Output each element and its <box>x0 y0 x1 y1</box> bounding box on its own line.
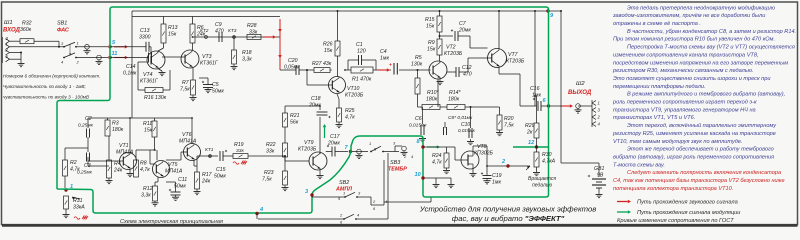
svg-text:R19: R19 <box>234 142 244 148</box>
svg-text:VT1: VT1 <box>119 143 129 149</box>
svg-text:R2: R2 <box>70 160 77 166</box>
capacitor C13 <box>139 28 151 52</box>
svg-text:ВЫХОД: ВЫХОД <box>568 90 592 96</box>
svg-text:КТ3: КТ3 <box>228 28 237 34</box>
wire VT7 collector to rail <box>498 10 500 49</box>
svg-text:130к: 130к <box>411 62 423 68</box>
red audio arrow after R28 <box>263 35 276 39</box>
svg-text:Т-моста схемы вау.: Т-моста схемы вау. <box>613 162 665 168</box>
svg-text:1: 1 <box>369 141 371 146</box>
capacitor C5 <box>199 78 224 95</box>
svg-text:C7: C7 <box>459 21 467 27</box>
svg-text:15к: 15к <box>426 24 435 30</box>
svg-text:R32: R32 <box>22 21 32 27</box>
resistor R11 <box>143 118 157 137</box>
node 6 <box>543 98 551 108</box>
svg-text:изменением сопротивления канал: изменением сопротивления канала транзист… <box>613 52 759 58</box>
svg-text:180к: 180к <box>426 97 438 103</box>
wire VT6 emitter to R17 <box>193 161 195 167</box>
svg-text:C13: C13 <box>140 28 150 34</box>
capacitor C3 <box>77 137 93 176</box>
wire VT7 emitter to C16 branch <box>499 68 520 107</box>
svg-text:В режиме амплитудного и тембро: В режиме амплитудного и тембрового вибра… <box>627 92 785 98</box>
svg-text:Номером 6 обозначен (корпусной: Номером 6 обозначен (корпусной) контакт. <box>3 73 100 79</box>
svg-text:R16 130к: R16 130к <box>144 95 167 101</box>
wire C7 to VT7 base <box>470 36 488 48</box>
wire top supply rail <box>132 10 561 12</box>
svg-text:24к: 24к <box>113 168 123 174</box>
capacitor C8* <box>444 115 473 135</box>
svg-text:Кривые изменения сопротивления: Кривые изменения сопротивления по ГОСТ <box>617 218 734 224</box>
ground R18 <box>231 64 238 70</box>
svg-text:R17: R17 <box>202 172 213 178</box>
transistor VT4 <box>140 51 165 85</box>
jack contact SB3 left <box>356 149 363 158</box>
ground C6 <box>419 136 426 142</box>
wire battery drop <box>560 10 562 163</box>
svg-text:1: 1 <box>77 41 79 46</box>
junction R5 <box>417 69 419 71</box>
resistor R29 <box>525 95 539 138</box>
transistor VT3 <box>181 50 219 68</box>
resistor R25 <box>337 94 356 122</box>
resistor R15 <box>425 10 442 32</box>
node 2 <box>501 159 510 168</box>
jack contact SB3 right <box>401 146 408 155</box>
transistor VT10 <box>329 77 364 99</box>
jack contact SB1 lower <box>96 55 103 64</box>
red audio arrow to output <box>562 104 574 108</box>
svg-text:ТЕМБР: ТЕМБР <box>388 167 407 173</box>
svg-text:C18: C18 <box>311 96 321 102</box>
svg-text:C12: C12 <box>462 65 472 71</box>
note text sensitivity <box>3 73 100 100</box>
svg-text:C5: C5 <box>212 82 219 88</box>
svg-text:R24: R24 <box>432 153 442 159</box>
resistor R2 <box>63 148 89 188</box>
node 8 <box>417 139 425 149</box>
svg-text:чувствительность по входу 3 -: чувствительность по входу 3 - 100мВ <box>3 95 89 100</box>
svg-text:Эта педаль претерпела неоднокр: Эта педаль претерпела неоднократную моди… <box>627 5 776 11</box>
ground R31 <box>63 213 70 218</box>
svg-text:R28: R28 <box>247 23 257 29</box>
svg-text:1мк: 1мк <box>492 180 501 186</box>
ground R12 <box>152 201 159 206</box>
transistor VT7 <box>488 49 525 68</box>
svg-text:10: 10 <box>415 172 422 178</box>
wire R6 to VT3 collector <box>192 43 194 50</box>
wire VT6 base <box>166 152 187 160</box>
svg-text:R26: R26 <box>323 42 333 48</box>
svg-text:R27 43к: R27 43к <box>312 61 332 67</box>
switch SB1 contacts <box>61 41 80 65</box>
ground VT9 emitter <box>317 170 324 179</box>
ground battery <box>596 188 603 198</box>
resistor R7 <box>180 68 196 95</box>
svg-text:VT10: VT10 <box>347 86 360 92</box>
svg-text:470: 470 <box>463 72 472 78</box>
ground R25 <box>336 122 343 128</box>
variable resistor R30 <box>526 152 556 171</box>
node 4 <box>255 207 264 215</box>
switch SB2 contacts row2 <box>258 213 388 225</box>
svg-text:R3: R3 <box>112 121 119 127</box>
svg-text:SB1: SB1 <box>57 21 67 27</box>
svg-text:180к: 180к <box>448 97 460 103</box>
svg-text:3,3к: 3,3к <box>141 193 151 199</box>
resistor R10* <box>422 90 440 110</box>
svg-text:вибрато (автовау), играя роль: вибрато (автовау), играя роль переменног… <box>613 154 774 160</box>
title device line2 <box>452 214 565 223</box>
wire C16 to output <box>541 105 566 107</box>
wire R27 to VT10 base <box>306 69 332 85</box>
svg-text:1мк: 1мк <box>380 56 389 62</box>
svg-text:7,5к: 7,5к <box>262 177 272 183</box>
control point KT2 <box>200 28 209 38</box>
wire SB1 to node 5 <box>76 46 108 48</box>
jack contact output <box>575 104 593 113</box>
svg-text:Вращается: Вращается <box>528 176 556 182</box>
svg-text:24к: 24к <box>201 179 211 185</box>
svg-text:ФАС: ФАС <box>57 28 70 34</box>
svg-text:0,05мк: 0,05мк <box>284 64 300 70</box>
wire VT4 to VT3 base <box>162 56 185 58</box>
wire C4 to VT2 base <box>399 69 431 71</box>
wire R5 to divider rail <box>417 94 419 107</box>
resistor R23 <box>262 170 288 185</box>
wire R16 loop <box>138 62 170 90</box>
wire VT6 output row <box>197 156 210 166</box>
resistor R27 <box>312 61 332 73</box>
title device line1 <box>419 205 597 214</box>
svg-text:R10*: R10* <box>427 90 440 96</box>
ground R20 <box>496 130 503 136</box>
wire R21 chain top <box>285 106 320 113</box>
resistor R22 <box>266 142 288 157</box>
wire node5 to C13 <box>110 46 146 48</box>
svg-text:R30: R30 <box>542 152 552 158</box>
svg-text:VT4: VT4 <box>143 72 153 78</box>
svg-text:Перестройка Т-моста схемы вау: Перестройка Т-моста схемы вау (VT2 и VT7… <box>627 44 795 51</box>
svg-text:резистором R30, механически св: резистором R30, механически связанным с … <box>612 68 754 74</box>
red audio arrow at node 11 <box>114 56 128 60</box>
svg-text:33к: 33к <box>266 149 275 155</box>
svg-text:КТ203Б: КТ203Б <box>298 147 317 153</box>
svg-text:Это позволяет существенно сниз: Это позволяет существенно снизить шорохи… <box>613 76 770 82</box>
capacitor C18 <box>308 96 331 118</box>
svg-text:VT2: VT2 <box>446 45 456 51</box>
capacitor C2 <box>78 116 94 138</box>
transistor VT8 <box>455 144 493 169</box>
resistor R21 <box>283 113 300 127</box>
svg-text:R31: R31 <box>73 198 83 204</box>
ground R17 <box>194 189 201 195</box>
ground R23 <box>282 185 289 191</box>
svg-text:Устройство для получения звуко: Устройство для получения звуковых эффект… <box>419 205 597 214</box>
svg-text:R8: R8 <box>140 161 147 167</box>
transistor VT1 <box>116 143 137 170</box>
svg-text:12: 12 <box>528 140 535 146</box>
resistor R28 <box>247 23 261 40</box>
svg-text:360к: 360к <box>20 27 32 33</box>
wire SB3 return <box>384 198 431 203</box>
ground R7 <box>190 95 197 101</box>
svg-text:9В: 9В <box>597 173 604 179</box>
wire pin1 to SB1 <box>10 46 65 48</box>
resistor R6 <box>190 17 206 44</box>
wire VT3 collector row <box>193 36 281 38</box>
node 3 <box>305 189 314 197</box>
red audio arrow before C4 <box>378 68 390 72</box>
green modulation arrow up <box>323 124 327 138</box>
ground VT8 source <box>470 169 477 177</box>
wire C13 to VT4 base <box>149 47 151 55</box>
capacitor C17 <box>326 134 348 157</box>
wire VT8 drain to node 2 <box>473 146 530 166</box>
wire VT1 base <box>88 157 123 161</box>
svg-text:4,7кА: 4,7кА <box>542 159 556 165</box>
capacitor C19 <box>481 165 502 185</box>
capacitor C7 <box>440 21 472 41</box>
ground R24 <box>443 168 450 174</box>
transistor VT6 <box>179 132 201 161</box>
wire R26 to VT10 collector <box>337 56 339 77</box>
red audio path vertical <box>278 19 282 64</box>
wire node7 to SB3 <box>352 151 368 153</box>
label R30 pedal <box>528 176 556 189</box>
wire SB1 to node 11 <box>76 57 108 59</box>
svg-text:С4, так как потенциал базы тра: С4, так как потенциал базы транзистора V… <box>613 178 785 184</box>
node 12 <box>528 138 538 152</box>
svg-text:При этом номинал резистора R10: При этом номинал резистора R10 был увели… <box>613 37 775 43</box>
svg-text:Ш1: Ш1 <box>4 20 13 26</box>
svg-text:R18: R18 <box>242 50 252 56</box>
resistor R8 <box>134 150 151 177</box>
junction R6 row <box>192 36 194 38</box>
svg-text:2к: 2к <box>526 130 533 136</box>
ground input <box>18 61 25 67</box>
svg-text:50мк: 50мк <box>212 89 224 95</box>
node 5 <box>108 40 116 49</box>
wire C20 to R27 <box>299 69 314 71</box>
ground VT1 emitter <box>127 170 134 177</box>
capacitor C15 <box>211 150 227 180</box>
svg-text:11: 11 <box>112 51 118 57</box>
svg-text:20мк: 20мк <box>308 103 321 109</box>
svg-text:R22: R22 <box>266 142 276 148</box>
ground R30 <box>533 171 540 176</box>
svg-text:Этот переход, включённый парал: Этот переход, включённый параллельно эми… <box>627 122 777 129</box>
svg-text:GB1: GB1 <box>594 166 604 172</box>
wire R32 to junction <box>34 41 59 47</box>
node 1 <box>64 184 73 192</box>
battery GB1 <box>561 163 606 188</box>
svg-text:R11: R11 <box>143 121 152 127</box>
wire VT1 collector <box>129 117 131 153</box>
svg-text:ВХОД: ВХОД <box>3 28 21 34</box>
resistor R16 <box>144 88 167 102</box>
svg-text:Путь прохождения звукового сиг: Путь прохождения звукового сигнала <box>637 200 738 206</box>
svg-text:SB2: SB2 <box>339 180 349 186</box>
svg-text:15к: 15к <box>144 128 153 134</box>
svg-text:R1 470к: R1 470к <box>352 77 372 83</box>
svg-text:C9: C9 <box>215 22 222 28</box>
svg-text:1: 1 <box>343 191 345 196</box>
svg-text:SB3: SB3 <box>390 160 400 166</box>
svg-text:15к: 15к <box>427 47 436 53</box>
svg-text:C19: C19 <box>492 173 502 179</box>
svg-text:КТ1: КТ1 <box>205 147 214 153</box>
connector Sh2 pins <box>592 100 601 127</box>
resistor R13 <box>161 17 178 44</box>
capacitor C9 <box>215 22 224 42</box>
svg-text:фас, вау и вибрато "ЭФФЕКТ": фас, вау и вибрато "ЭФФЕКТ" <box>452 214 565 223</box>
capacitor C12 <box>447 58 472 78</box>
control point KT3 <box>228 28 237 38</box>
caption schematic type <box>120 219 223 225</box>
svg-text:4,7к: 4,7к <box>432 160 442 166</box>
svg-text:0,1мк: 0,1мк <box>123 71 137 77</box>
svg-text:33кА: 33кА <box>73 205 85 211</box>
resistor R17 <box>194 166 213 189</box>
svg-text:50мк: 50мк <box>214 174 226 180</box>
ground node10 a <box>433 183 440 188</box>
wire LF gen rail <box>88 117 192 119</box>
jack contact SB1 upper <box>84 45 91 54</box>
svg-text:КП302Б: КП302Б <box>474 151 493 157</box>
svg-text:R12: R12 <box>143 186 153 192</box>
svg-text:180к: 180к <box>112 127 124 133</box>
svg-text:0,015мк: 0,015мк <box>458 128 476 133</box>
svg-text:C16: C16 <box>530 86 540 92</box>
svg-text:транзисторах VT1, VT5 и VT6.: транзисторах VT1, VT5 и VT6. <box>613 115 695 121</box>
legend taper curves <box>617 218 734 224</box>
switch SB2 contacts row1 <box>312 191 388 212</box>
parallel C1 R1 <box>344 42 391 83</box>
svg-text:470: 470 <box>215 29 224 35</box>
svg-text:посредством изменения напряжен: посредством изменения напряжения на его … <box>613 60 788 66</box>
svg-text:20мк: 20мк <box>458 28 471 34</box>
svg-text:1: 1 <box>598 101 600 106</box>
svg-text:заводом-изготовителем, причём: заводом-изготовителем, причём не все дор… <box>612 13 765 19</box>
svg-text:4,7к: 4,7к <box>345 115 355 121</box>
svg-text:Путь прохождения сигнала модул: Путь прохождения сигнала модуляции <box>637 210 741 216</box>
svg-text:4,7к: 4,7к <box>140 167 150 173</box>
wire VT9 collector to C18 <box>319 105 321 154</box>
svg-text:C1: C1 <box>356 42 363 48</box>
green branch to R30 <box>513 146 549 148</box>
resistor R14* <box>440 90 465 110</box>
svg-text:R29: R29 <box>525 123 535 129</box>
wire R9 to VT2 collector <box>439 55 441 61</box>
wire VT6 collector <box>191 117 193 144</box>
capacitor C14 <box>123 53 152 77</box>
svg-text:КТ2: КТ2 <box>200 28 209 34</box>
svg-text:В частности, убран конденсатор: В частности, убран конденсатор С8, а зат… <box>627 29 796 35</box>
ground C10 <box>467 139 474 145</box>
wire R13 to VT4 collector <box>158 43 164 51</box>
ground VT4 emitter <box>158 69 166 76</box>
svg-text:VT8: VT8 <box>477 144 487 150</box>
svg-text:C8* 0,01мк: C8* 0,01мк <box>448 115 473 121</box>
svg-text:роль переменного сопротивления: роль переменного сопротивления играет пе… <box>612 100 757 106</box>
svg-text:R23: R23 <box>264 170 274 176</box>
switch SB1 label <box>57 21 70 34</box>
junction pin1-R32 <box>58 46 60 48</box>
capacitor C4 reversed polarity <box>380 49 397 75</box>
svg-text:7,5к: 7,5к <box>180 87 190 93</box>
svg-text:VT9: VT9 <box>304 140 314 146</box>
control point KT1 <box>205 147 214 157</box>
svg-text:15к: 15к <box>324 48 333 54</box>
resistor R32 <box>20 21 34 44</box>
resistor R3 <box>105 118 124 136</box>
svg-text:20мк: 20мк <box>327 141 340 147</box>
svg-text:КТ203Б: КТ203Б <box>506 59 525 65</box>
switch SB3 label <box>388 160 407 173</box>
ground VT2 emitter <box>437 79 444 85</box>
svg-text:VT5: VT5 <box>168 162 178 168</box>
svg-text:МП41А: МП41А <box>116 150 134 156</box>
connector Sh2 label <box>568 81 592 96</box>
resistor R20 <box>497 107 514 130</box>
taper curves R31 <box>74 216 88 219</box>
svg-text:4,7к: 4,7к <box>70 167 80 173</box>
svg-text:C4: C4 <box>380 49 387 55</box>
svg-text:Ш2: Ш2 <box>576 81 585 87</box>
ground node10 b <box>448 183 455 188</box>
svg-text:C20: C20 <box>288 58 298 64</box>
svg-text:резистору R25, изменяет усилен: резистору R25, изменяет усиление каскада… <box>612 131 776 137</box>
wire R22-R23 <box>284 157 286 171</box>
wire VT7 base link <box>468 57 492 59</box>
resistor R12 <box>141 177 158 201</box>
svg-text:транзистора VT9, управляемого: транзистора VT9, управляемого генераторо… <box>613 107 756 113</box>
variable resistor R31 <box>64 196 86 213</box>
wire R11 to VT5 collector <box>154 137 157 160</box>
svg-text:VT6: VT6 <box>182 132 192 138</box>
capacitor C10 <box>458 107 476 138</box>
wire node10 grounds <box>423 178 451 183</box>
svg-text:33к: 33к <box>249 30 258 36</box>
wire R19 to VT9 base <box>248 155 309 161</box>
svg-text:потенциала коллектора транзист: потенциала коллектора транзистора VT10. <box>613 186 733 192</box>
wire VT5 base <box>136 150 156 164</box>
node 11 <box>108 51 117 59</box>
wire phaser rail <box>132 11 280 17</box>
svg-text:C6: C6 <box>415 116 422 122</box>
wire node4 drop <box>256 214 258 220</box>
svg-text:педалью: педалью <box>532 183 552 189</box>
resistor R24 <box>423 147 455 168</box>
switch SB3 contacts <box>369 141 414 160</box>
legend audio path <box>617 200 738 206</box>
description text block <box>612 5 796 192</box>
svg-text:перемещении платформы педали.: перемещении платформы педали. <box>613 84 706 90</box>
svg-text:0,25мк: 0,25мк <box>78 123 94 129</box>
taper curve R19 <box>233 161 247 164</box>
svg-text:отражены в схеме её паспорта .: отражены в схеме её паспорта . <box>613 21 701 27</box>
svg-text:C11: C11 <box>178 177 187 183</box>
svg-text:3,3к: 3,3к <box>242 57 252 63</box>
svg-text:МП41А: МП41А <box>179 139 197 145</box>
svg-text:1: 1 <box>6 42 8 47</box>
svg-text:МП41А: МП41А <box>165 169 183 175</box>
node 7 <box>345 145 353 153</box>
connector Sh1 label <box>3 20 21 34</box>
svg-text:R20: R20 <box>504 116 514 122</box>
wire VT7 branch to C16 <box>520 10 537 106</box>
